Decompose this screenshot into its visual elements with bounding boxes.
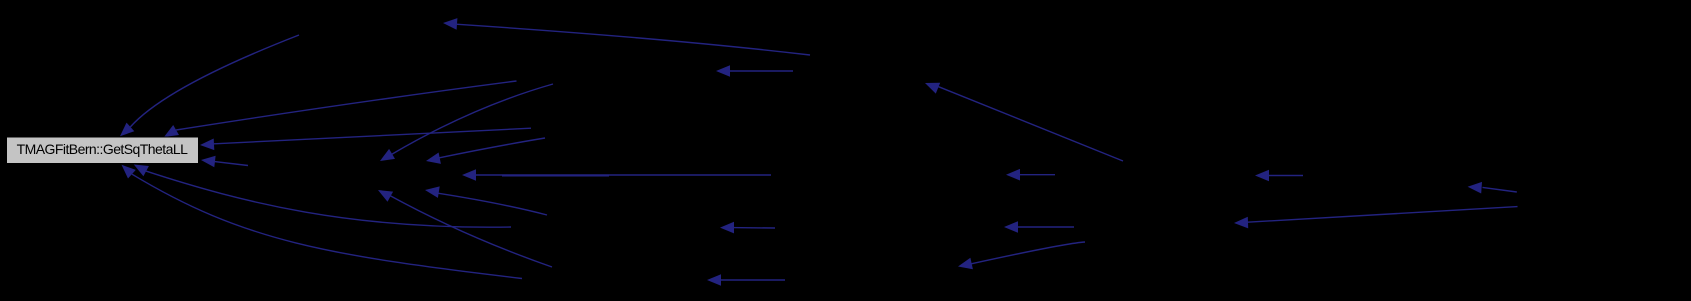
wire edge S: node2a -> box (213, 161, 249, 165)
arrowhead D (164, 125, 179, 137)
arrowhead U2 (425, 186, 440, 198)
wire edge H22: node4g -> node3j (731, 227, 775, 229)
arrowhead T (443, 18, 457, 30)
arrowhead H13 (716, 65, 730, 77)
arrowhead A (200, 139, 214, 151)
wire edge T: node4a -> node2t (456, 24, 810, 55)
arrowhead Ec (426, 153, 441, 164)
wire edge H15: node5b -> node4d (1019, 174, 1055, 176)
arrowhead A1 (120, 123, 134, 137)
arrowhead S (201, 156, 216, 168)
wire edge A: node3b -> box (212, 128, 531, 144)
wire edge G18: node7a -> node5c (1248, 207, 1518, 223)
wire edge D: node3a -> box (176, 81, 516, 130)
wire edge L12a: node4c -> node2m (476, 174, 771, 176)
wire edge U2: node3h -> node2b (438, 193, 547, 215)
arrowhead H16 (1255, 170, 1269, 182)
wire edge B3: node3d -> box (inner lower arc) (146, 171, 511, 227)
arrowhead G14 (925, 83, 940, 94)
wire edge A1: node2t -> box (upper arc) (130, 35, 299, 127)
wire edge Ec: node3f -> node2b (439, 138, 545, 158)
wire edge H13: node4b -> node3a (729, 70, 794, 72)
wire edge L12b: node3i -> node2m (overlap) (502, 175, 609, 177)
wire edge G14: node5a -> node4a (938, 86, 1123, 161)
arrowhead H22 (720, 222, 734, 234)
arrowhead B2 (122, 165, 136, 179)
arrowhead B3 (134, 165, 149, 177)
wire edge G17: node7a -> node6b (1483, 187, 1517, 192)
wire edge Es: node3e -> node2a (391, 84, 553, 155)
wire edge B2: node3c -> box (big lower arc) (132, 174, 522, 278)
wire edge H23: node4h -> node3k (720, 279, 785, 281)
arrowhead H19 (1004, 221, 1018, 233)
wire edge U1: node3g -> node2a (390, 196, 552, 268)
svg-text:TMAGFitBern::GetSqThetaLL: TMAGFitBern::GetSqThetaLL (17, 141, 188, 157)
wire edge H19: node5d -> node4e (1017, 226, 1074, 228)
node U0: TMAGFitBern::GetSqThetaLL (current function, grey) (7, 137, 199, 164)
wire edge H16: node6a -> node5b (1268, 175, 1303, 177)
arrowhead Es (380, 149, 395, 161)
arrowhead U1 (378, 190, 393, 202)
arrowhead H23 (707, 274, 721, 286)
arrowhead L12 (462, 169, 476, 181)
wire edge G20: node5e -> node4f (971, 242, 1085, 264)
arrowhead H15 (1006, 169, 1020, 181)
arrowhead G20 (958, 258, 973, 269)
arrowhead G18 (1234, 217, 1248, 229)
arrowhead G17 (1468, 182, 1482, 194)
